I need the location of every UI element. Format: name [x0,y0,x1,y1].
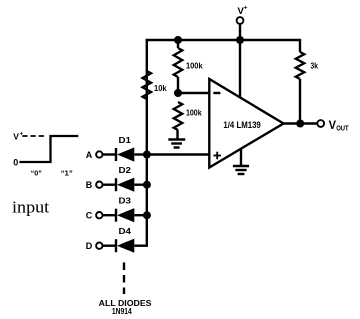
wire diode D2 to summing bus [134,183,146,185]
wire dashed leader to diode note [123,263,125,295]
svg-text:+: + [244,5,248,12]
resistor 10k [143,71,168,99]
ground for op-amp [233,166,249,174]
label waveform V+ level [13,132,23,142]
svg-text:D4: D4 [119,227,132,236]
diode D1 [116,136,134,162]
svg-text:input: input [12,198,50,217]
ground for 100k lower [168,140,185,148]
diode D3 [116,197,134,223]
svg-text:1/4 LM139: 1/4 LM139 [223,120,260,131]
wire 100k lower to ground [176,130,178,140]
junction dot top bus / middle branch [174,36,182,44]
svg-text:A: A [86,150,93,160]
wire op-amp output [284,122,318,124]
junction dot node B bus [143,181,151,189]
resistor 100k lower [174,102,202,130]
resistor 3k [296,52,319,79]
svg-text:D3: D3 [119,197,132,206]
wire middle branch upper [177,40,179,48]
svg-text:“0”: “0” [31,169,42,178]
wire waveform step [19,136,78,162]
wire diode D4 to summing bus corner [134,244,148,246]
wire terminal C to diode D3 [103,214,116,216]
wire op-amp ground pin [240,148,242,166]
svg-text:10k: 10k [154,84,167,93]
svg-text:0: 0 [13,157,18,167]
junction dot node C bus [143,211,151,219]
junction dot node A bus [143,151,151,159]
wire 100k upper to middle junction [177,77,179,93]
wire diode summing bus vertical [146,155,148,246]
wire top supply bus [146,39,301,41]
op-amp U1 1/4 LM139 [209,79,283,168]
svg-text:C: C [86,211,93,221]
svg-text:OUT: OUT [336,123,349,132]
wire diode D3 to summing bus [134,214,146,216]
wire left branch vertical [146,40,148,155]
node input terminal B [86,180,103,190]
wire middle junction to inverting input [178,92,210,94]
svg-text:D1: D1 [119,136,132,145]
svg-text:V: V [329,118,336,132]
svg-text:D2: D2 [119,166,132,175]
wire summing node to non-inverting input [147,153,210,155]
wire 3k to output node [299,79,301,124]
svg-text:3k: 3k [311,62,319,71]
node Vout terminal [317,118,349,132]
svg-text:100k: 100k [186,61,203,70]
wire waveform dashed V+ level [22,135,46,137]
resistor 100k upper [174,48,203,77]
node input terminal A [86,150,103,160]
label ALL DIODES 1N914 [99,298,152,316]
node input terminal D [86,241,103,251]
diode D2 [116,166,134,192]
diode D4 [116,227,134,253]
wire terminal B to diode D2 [103,183,116,185]
svg-text:“1”: “1” [61,169,73,178]
node V+ supply terminal [237,5,248,24]
wire V+ terminal to top bus [239,24,241,40]
svg-text:1N914: 1N914 [112,306,132,316]
wire terminal D to diode D4 [103,244,116,246]
svg-text:D: D [86,241,93,251]
wire op-amp V+ pin [239,40,241,105]
junction dot top bus / V+ [236,36,244,44]
junction dot middle node [174,89,182,97]
wire right branch down from bus [299,39,301,52]
svg-text:V: V [13,132,19,142]
svg-text:100k: 100k [186,109,202,118]
node input terminal C [86,211,103,221]
wire terminal A to diode D1 [103,153,116,155]
junction dot output node [296,120,304,128]
wire diode D1 to summing bus [134,153,146,155]
svg-text:B: B [86,180,93,190]
